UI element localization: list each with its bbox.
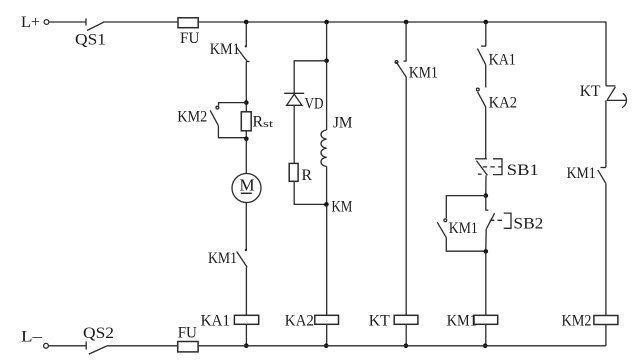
terminal L-: [44, 343, 49, 348]
contact KM2 hook: [216, 106, 219, 109]
coil KM1: [474, 315, 498, 324]
svg-text:KM2: KM2: [177, 109, 207, 126]
wire coil KA2 to rail: [326, 324, 328, 346]
fuse FU bottom: [178, 342, 198, 352]
svg-text:QS1: QS1: [75, 32, 106, 49]
coil KM2: [594, 316, 618, 325]
wire SB1 to node: [485, 175, 487, 195]
node bottom rail x486: [483, 343, 488, 348]
svg-text:SB2: SB2: [513, 216, 543, 233]
wire branch1 from rail: [245, 22, 247, 46]
switch QS1 blade: [87, 22, 104, 30]
wire to SB2: [485, 196, 487, 211]
wire contact to coil KT: [405, 77, 407, 315]
svg-text:R: R: [302, 167, 313, 184]
wire KA2 to SB1: [485, 107, 487, 159]
wire KM2 top connector: [219, 103, 247, 106]
svg-text:KT: KT: [369, 312, 390, 329]
svg-text:QS2: QS2: [83, 325, 114, 342]
contact KM1 hook (parallel): [444, 219, 447, 222]
svg-text:M: M: [240, 176, 255, 195]
svg-text:KM: KM: [331, 198, 352, 215]
bottom rail wire: [198, 345, 606, 347]
svg-text:KA1: KA1: [201, 312, 230, 329]
inductor JM wire above: [326, 61, 328, 130]
svg-text:R: R: [253, 114, 264, 131]
svg-text:KM1: KM1: [567, 165, 596, 182]
node top rail x246: [244, 20, 249, 25]
node top rail x406: [404, 20, 409, 25]
diode VD: [284, 93, 304, 105]
coil KT: [394, 315, 418, 324]
inductor JM wire below: [326, 166, 328, 204]
wire KM2 bottom connector: [218, 126, 246, 138]
svg-text:KM1: KM1: [210, 41, 240, 58]
contact KA2: [476, 88, 485, 107]
wire node KM to coil: [326, 204, 328, 315]
node below SB2: [484, 249, 489, 254]
node bottom rail x326: [324, 343, 329, 348]
pushbutton SB2 (NO): [485, 210, 511, 228]
wire VD top connector: [294, 61, 326, 94]
contact KM2 blade: [210, 110, 218, 125]
wire node to coil KM1: [485, 251, 487, 315]
wire QS2 to fuse: [107, 345, 178, 347]
coil KA1: [234, 315, 258, 324]
wire contact to coil: [245, 267, 247, 315]
switch QS2 fixed contact tick: [85, 342, 87, 350]
wire into Rst: [245, 103, 247, 112]
wire to motor: [245, 139, 247, 174]
resistor R body: [289, 163, 298, 181]
svg-text:KA2: KA2: [489, 95, 517, 112]
node top rail x486: [484, 20, 489, 25]
wire coil KM2 to bottom rail corner: [605, 325, 607, 346]
contact KM1 (branch1 bottom): [237, 249, 248, 268]
wire bottom-left: [49, 345, 87, 347]
resistor Rst body: [241, 112, 251, 131]
wire coil KT to rail: [405, 324, 407, 346]
wire contact to node: [245, 62, 247, 103]
svg-text:KM2: KM2: [562, 312, 592, 329]
switch QS2 blade: [89, 346, 107, 354]
contact KM1 (branch1 top): [237, 45, 250, 62]
node bottom rail x406: [404, 343, 409, 348]
pushbutton SB1 (NC): [475, 159, 502, 176]
wire branch2 from rail: [326, 22, 328, 61]
time contact KT: [606, 86, 626, 108]
contact KM1 blade (parallel): [437, 222, 446, 237]
svg-text:KM1: KM1: [208, 250, 237, 267]
contact KA1: [477, 46, 486, 65]
node KM: [324, 202, 329, 207]
svg-text:KM1: KM1: [447, 312, 477, 329]
wire branch3 from rail: [405, 22, 407, 61]
wire branch4 from rail: [485, 22, 487, 46]
wire coil to rail: [245, 324, 247, 346]
top rail wire: [103, 21, 607, 23]
switch QS1 fixed contact tick: [85, 19, 87, 26]
node bottom rail x246: [244, 343, 249, 348]
svg-text:FU: FU: [178, 325, 198, 342]
svg-text:SB1: SB1: [507, 162, 539, 179]
motor M circle: [232, 174, 261, 203]
inductor JM coil: [321, 130, 327, 166]
coil KA2: [315, 315, 339, 324]
terminal L+: [44, 20, 49, 25]
wire branch5 from rail corner: [605, 22, 607, 86]
svg-text:KM1: KM1: [409, 65, 438, 82]
contact KM1 (branch3): [395, 61, 407, 78]
svg-text:VD: VD: [305, 96, 324, 113]
wire KT contact to KM1 contact: [605, 100, 607, 167]
wire KM1 parallel top: [446, 196, 486, 219]
node VD branch top: [324, 59, 329, 64]
wire contact to coil KM2: [605, 183, 607, 315]
wire coil KM1 to rail: [485, 324, 487, 346]
svg-text:KT: KT: [580, 83, 601, 100]
wire KA1 to KA2: [485, 65, 487, 88]
node below Rst: [244, 137, 249, 142]
motor M underline: [241, 192, 252, 194]
wire SB2 to node: [485, 229, 487, 252]
svg-text:KA2: KA2: [285, 312, 314, 329]
wire top-left: [49, 21, 86, 23]
svg-text:st: st: [263, 119, 273, 130]
svg-text:JM: JM: [333, 115, 353, 132]
fuse FU top: [178, 18, 198, 28]
svg-text:L–: L–: [21, 329, 43, 346]
wire KM1 parallel bottom: [446, 238, 486, 252]
node above SB2: [484, 193, 489, 198]
wire out of Rst: [245, 131, 247, 139]
svg-text:L+: L+: [21, 14, 40, 31]
contact KM1 (branch5): [598, 168, 606, 184]
node above Rst: [244, 100, 249, 105]
svg-text:KA1: KA1: [489, 51, 516, 68]
wire R to bottom connector: [294, 181, 326, 204]
svg-text:KM1: KM1: [449, 220, 478, 237]
wire motor to contact: [245, 203, 247, 251]
wire VD to R: [293, 105, 295, 163]
node top rail x327: [324, 20, 329, 25]
svg-text:FU: FU: [180, 30, 200, 47]
